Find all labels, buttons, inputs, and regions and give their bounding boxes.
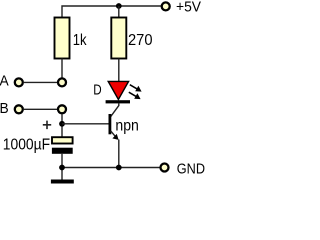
svg-text:+5V: +5V — [176, 0, 201, 16]
transistor Q1 emitter diagonal — [111, 131, 118, 139]
wire 270 branch top — [118, 6, 120, 18]
svg-text:270: 270 — [128, 32, 153, 49]
junction emitter node — [116, 165, 122, 171]
svg-text:npn: npn — [115, 117, 138, 134]
ground symbol — [51, 180, 74, 184]
svg-text:1k: 1k — [73, 32, 88, 49]
svg-text:1000µF: 1000µF — [3, 137, 50, 154]
transistor Q1 collector diagonal — [111, 106, 119, 117]
node B connector circle — [58, 105, 66, 113]
svg-text:A: A — [0, 73, 9, 90]
wire A row — [24, 81, 57, 83]
capacitor C1 plus sign — [43, 121, 51, 130]
LED D triangle — [108, 81, 128, 99]
terminal B — [15, 105, 23, 113]
terminal A — [15, 78, 23, 86]
transistor Q1 emitter arrowhead — [112, 134, 118, 140]
GND terminal — [161, 164, 169, 172]
capacitor C1 bottom plate — [52, 148, 73, 154]
LED light arrow 2 — [129, 92, 141, 99]
wire bottom rail — [62, 167, 160, 169]
LED light arrow 1 — [130, 85, 142, 92]
wire R1 bottom to node A — [61, 59, 63, 79]
wire cap bottom down to ground — [61, 154, 63, 180]
svg-text:GND: GND — [177, 161, 205, 178]
wire B row — [24, 108, 57, 110]
transistor Q1 base bar — [109, 114, 112, 134]
wire node B down to cap — [61, 114, 63, 137]
wire base — [62, 123, 109, 125]
svg-text:B: B — [0, 100, 9, 117]
+5V terminal — [162, 2, 170, 10]
LED D cathode bar — [106, 100, 130, 103]
capacitor C1 top plate — [52, 137, 73, 143]
wire LED cathode to collector — [118, 103, 120, 106]
junction ground node left — [59, 165, 65, 171]
junction top of 270 branch — [116, 3, 122, 9]
resistor R2 270 — [111, 18, 126, 59]
svg-text:D: D — [93, 82, 102, 99]
wire R2 bottom to LED anode — [118, 59, 120, 82]
wire top rail — [62, 6, 161, 18]
junction base node — [59, 121, 65, 127]
node A connector circle — [58, 78, 66, 86]
resistor R1 1k — [55, 18, 70, 59]
wire emitter down — [118, 140, 120, 168]
